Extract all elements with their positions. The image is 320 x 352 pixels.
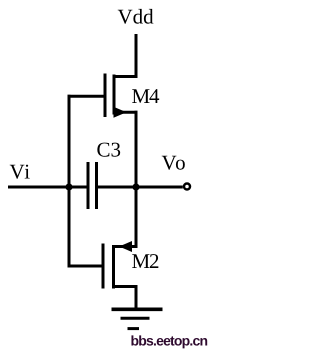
svg-text:Vo: Vo [162, 151, 187, 175]
svg-text:M4: M4 [132, 84, 160, 108]
svg-text:bbs.eetop.cn: bbs.eetop.cn [131, 333, 208, 349]
svg-text:C3: C3 [97, 138, 122, 162]
svg-text:Vdd: Vdd [118, 5, 155, 29]
svg-text:M2: M2 [132, 249, 159, 273]
svg-text:Vi: Vi [10, 160, 31, 184]
